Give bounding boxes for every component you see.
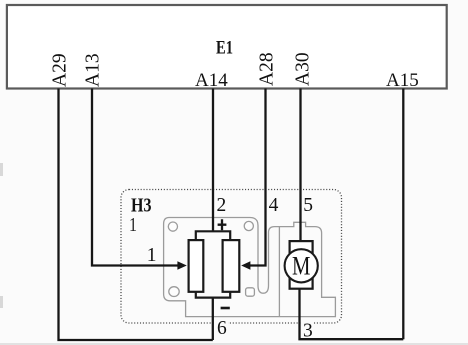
svg-text:A14: A14 xyxy=(195,70,228,91)
svg-text:A28: A28 xyxy=(257,52,278,86)
svg-text:4: 4 xyxy=(269,195,279,216)
svg-text:A30: A30 xyxy=(293,52,314,86)
svg-text:6: 6 xyxy=(217,318,227,339)
arrowhead pin 1 xyxy=(177,261,186,270)
svg-text:A29: A29 xyxy=(50,53,71,87)
wire A28 / pin 4 to arrow xyxy=(250,89,266,266)
bottom bracket xyxy=(196,292,230,298)
ECU box E1 xyxy=(7,5,447,89)
mounting hole bottom-left xyxy=(169,287,179,297)
wire A13 to arrow 1 xyxy=(92,89,178,266)
wire pin 6 drop xyxy=(212,298,214,341)
svg-text:M: M xyxy=(292,252,310,281)
svg-text:3: 3 xyxy=(303,321,313,342)
wire pin 3 to bottom rail xyxy=(300,289,404,340)
heater element right bar xyxy=(223,240,240,292)
svg-text:E1: E1 xyxy=(216,38,233,59)
mounting hole bottom-right xyxy=(246,288,255,296)
module internal rib xyxy=(278,227,280,317)
motor circle M xyxy=(285,249,318,282)
svg-text:1: 1 xyxy=(147,245,157,266)
minus sign xyxy=(221,307,230,310)
mounting hole top-right xyxy=(244,221,253,230)
wire A15 drop xyxy=(402,89,404,340)
wire A30 / pin 5 xyxy=(299,89,301,243)
top bracket xyxy=(196,231,230,240)
heater element left bar xyxy=(189,240,204,292)
svg-text:5: 5 xyxy=(303,195,313,216)
svg-text:1: 1 xyxy=(129,215,137,236)
plus sign xyxy=(218,219,227,230)
mounting hole top-left xyxy=(168,222,177,231)
svg-text:H3: H3 xyxy=(131,195,152,217)
wire A29 pin to bottom rail xyxy=(59,89,213,341)
wire A14 / pin 2 xyxy=(212,89,214,232)
module body outline xyxy=(164,218,336,317)
gap in dashed border for pin 6 label xyxy=(215,320,228,327)
svg-text:2: 2 xyxy=(217,195,227,216)
dashed enclosure H3 xyxy=(121,190,342,324)
motor body xyxy=(290,241,313,289)
svg-text:A15: A15 xyxy=(386,70,419,91)
arrowhead pin 4 xyxy=(241,261,250,270)
gap in dashed border for pin 3 label xyxy=(302,320,314,327)
svg-text:A13: A13 xyxy=(83,53,104,87)
